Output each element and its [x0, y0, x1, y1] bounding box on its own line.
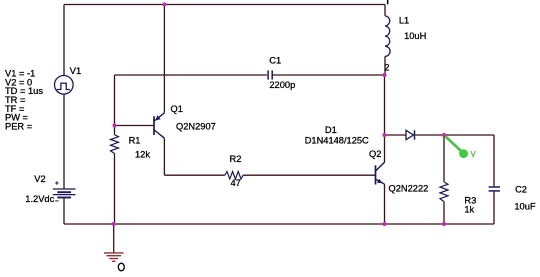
wire Q1 emitter to top rail	[163, 5, 165, 113]
battery V2	[53, 181, 76, 201]
node diode anode / Q2 collector	[382, 133, 386, 137]
svg-text:R1: R1	[129, 135, 141, 145]
svg-text:V1: V1	[70, 66, 81, 76]
wire top rail	[64, 4, 385, 6]
svg-text:L1: L1	[399, 15, 409, 25]
wire R1 branch	[114, 126, 116, 225]
transistor Q1 (PNP Q2N2907)	[154, 113, 164, 138]
svg-text:Q1: Q1	[171, 104, 183, 114]
wire L1 vertical	[384, 5, 386, 76]
svg-text:C2: C2	[515, 185, 527, 195]
node top rail / Q1 emitter	[162, 2, 166, 6]
svg-text:D1N4148/125C: D1N4148/125C	[305, 135, 369, 145]
svg-text:V2: V2	[34, 174, 45, 184]
svg-text:D1: D1	[325, 125, 337, 135]
svg-text:10uF: 10uF	[514, 201, 536, 211]
voltage probe V	[445, 136, 475, 158]
node R3 bottom / bottom rail	[442, 222, 446, 226]
svg-text:10uH: 10uH	[404, 31, 426, 41]
svg-text:1.2Vdc: 1.2Vdc	[25, 194, 54, 204]
resistor R3	[440, 182, 448, 202]
wire Q1 base	[115, 125, 154, 127]
wire left branch vertical	[63, 5, 65, 225]
V1 parameters text	[5, 69, 43, 132]
svg-text:C1: C1	[269, 56, 281, 66]
svg-text:2: 2	[384, 62, 389, 72]
node diode cathode / R3 / probe	[442, 133, 446, 137]
resistor R2	[225, 172, 243, 179]
svg-text:Q2N2222: Q2N2222	[389, 184, 429, 194]
wire diode line	[385, 134, 495, 136]
wire bottom rail	[64, 223, 494, 225]
transistor Q2 (NPN Q2N2222)	[376, 162, 385, 184]
resistor R1	[111, 135, 119, 154]
L1 pin 1	[387, 0, 389, 4]
wire R3 branch	[443, 135, 445, 224]
svg-text:12k: 12k	[135, 149, 150, 159]
ground 0	[104, 253, 124, 261]
node Q1 base / R1	[112, 123, 116, 127]
svg-text:Q2N2907: Q2N2907	[176, 121, 216, 131]
node Q2 emitter / bottom rail	[382, 222, 386, 226]
wire C1 branch	[115, 75, 385, 126]
wire ground stem	[113, 224, 115, 253]
wire L1 to diode line	[384, 75, 386, 135]
node C1 / L1 pin 2	[382, 73, 386, 77]
voltage source V1	[55, 76, 74, 95]
svg-text:Q2: Q2	[369, 149, 381, 159]
capacitor C2	[489, 187, 500, 191]
wire C2 branch right	[493, 135, 495, 224]
wire Q2 collector	[384, 135, 386, 163]
svg-text:R2: R2	[230, 154, 242, 164]
svg-text:2200p: 2200p	[269, 80, 295, 90]
svg-text:47: 47	[231, 178, 241, 188]
diode D1	[406, 130, 415, 139]
inductor L1	[385, 16, 390, 57]
node ground / R1 bottom	[112, 222, 116, 226]
ground label 0	[118, 263, 124, 271]
svg-text:1k: 1k	[464, 205, 474, 215]
capacitor C1	[268, 70, 272, 79]
wire Q1 collector to R2 to Q2 base	[164, 138, 375, 175]
svg-text:PER =: PER =	[5, 121, 32, 131]
wire Q2 emitter	[384, 184, 386, 224]
